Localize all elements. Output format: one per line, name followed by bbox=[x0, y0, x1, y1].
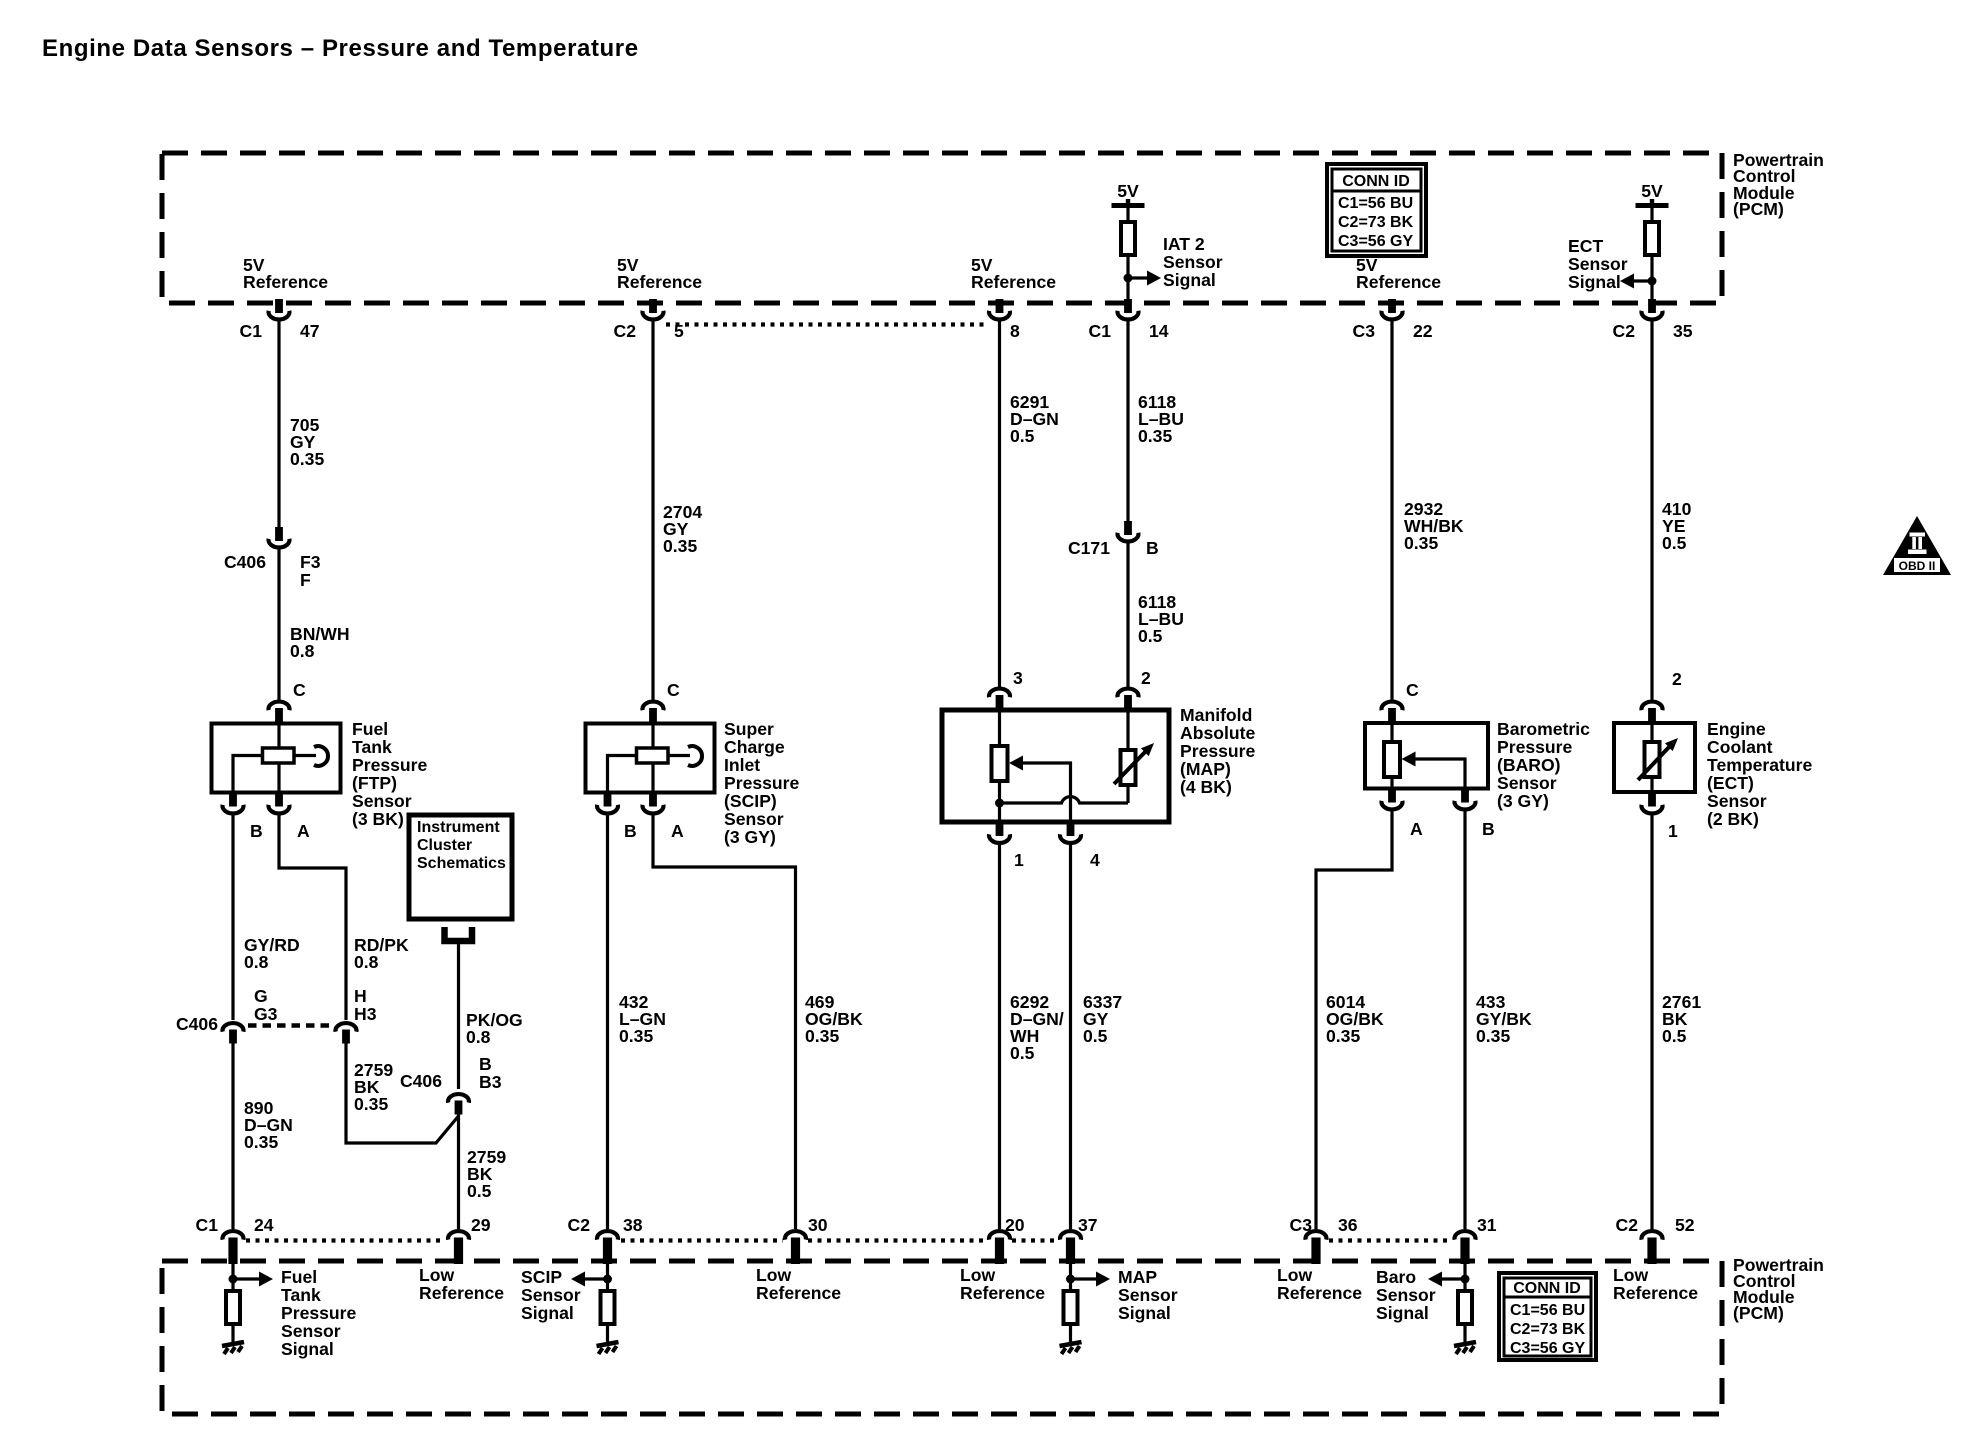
svg-text:29: 29 bbox=[471, 1215, 491, 1235]
svg-text:Instrument: Instrument bbox=[417, 819, 500, 836]
label: MAP Sensor Signal bbox=[1118, 1267, 1178, 1323]
arrow: IAT 2 Sensor Signal bbox=[1147, 271, 1161, 286]
wire: ECT signal arrow lead bbox=[1634, 279, 1652, 282]
svg-text:C3=56 GY: C3=56 GY bbox=[1338, 233, 1413, 250]
svg-text:C3: C3 bbox=[1353, 321, 1376, 341]
svg-text:(SCIP): (SCIP) bbox=[724, 791, 777, 811]
component: SCIP transducer element bbox=[637, 748, 669, 763]
connector: ECT pin 1 bbox=[1642, 793, 1679, 842]
svg-text:Engine: Engine bbox=[1707, 719, 1766, 739]
svg-text:Signal: Signal bbox=[1118, 1303, 1171, 1323]
svg-text:Signal: Signal bbox=[1568, 272, 1621, 292]
wire: FTP resistor to ground bbox=[231, 1324, 234, 1343]
svg-text:Low: Low bbox=[1277, 1265, 1312, 1285]
label: Engine Coolant Temperature (ECT) Sensor (2 BK) bbox=[1707, 719, 1812, 829]
label: Low Reference (C2-52) bbox=[1613, 1265, 1698, 1303]
svg-text:Low: Low bbox=[419, 1265, 454, 1285]
svg-text:1: 1 bbox=[1668, 821, 1678, 841]
svg-text:1: 1 bbox=[1014, 850, 1024, 870]
arrow: MAP Sensor Signal bbox=[1096, 1272, 1110, 1287]
arrow: MAP wiper into potentiometer bbox=[1009, 756, 1023, 771]
svg-text:Pressure: Pressure bbox=[352, 755, 428, 775]
svg-text:0.35: 0.35 bbox=[663, 536, 697, 556]
svg-text:A: A bbox=[1410, 819, 1423, 839]
svg-text:A: A bbox=[671, 821, 684, 841]
connector: MAP pin 4 bbox=[1060, 822, 1100, 870]
svg-text:(2 BK): (2 BK) bbox=[1707, 809, 1759, 829]
value label: 2704 GY 0.35 bbox=[663, 502, 702, 556]
svg-text:C2: C2 bbox=[1613, 321, 1636, 341]
resistor: MAP input load in PCM bbox=[1064, 1291, 1078, 1324]
wire: FTP signal arrow lead bbox=[233, 1277, 259, 1280]
svg-text:Sensor: Sensor bbox=[1568, 254, 1628, 274]
wire: GY/RD 0.8 (FTP B to C406 G3) bbox=[231, 813, 234, 1020]
svg-text:Fuel: Fuel bbox=[281, 1267, 317, 1287]
label: Barometric Pressure (BARO) Sensor (3 GY) bbox=[1497, 719, 1590, 811]
connector C1 pin 47 (PCM top) bbox=[240, 299, 320, 341]
svg-text:Low: Low bbox=[960, 1265, 995, 1285]
resistor: SCIP input load in PCM bbox=[601, 1291, 615, 1324]
tie line: bottom connector dotted segment 30-20 bbox=[808, 1238, 984, 1242]
svg-text:OBD II: OBD II bbox=[1899, 559, 1936, 573]
svg-text:4: 4 bbox=[1090, 850, 1100, 870]
sensor: Fuel Tank Pressure (FTP) box bbox=[212, 724, 341, 793]
svg-text:Fuel: Fuel bbox=[352, 719, 388, 739]
svg-text:ECT: ECT bbox=[1568, 236, 1603, 256]
wire: RD/PK 0.8 (FTP A to C406 H3) bbox=[279, 813, 346, 1020]
wire: SCIP internal input lead bbox=[651, 723, 654, 749]
wire: ECT internal lower lead bbox=[1650, 777, 1653, 792]
svg-text:Reference: Reference bbox=[243, 272, 328, 292]
svg-text:C406: C406 bbox=[176, 1014, 218, 1034]
wire: FTP internal output lead bbox=[277, 763, 280, 792]
connector C406 pin H/H3 (in-line) bbox=[336, 986, 377, 1044]
svg-text:Super: Super bbox=[724, 719, 774, 739]
symbol: thermistor diagonal arrow (ECT) bbox=[1638, 738, 1678, 780]
junction: Baro signal node bbox=[1461, 1275, 1470, 1284]
svg-text:38: 38 bbox=[623, 1215, 643, 1235]
value label: 432 L-GN 0.35 bbox=[619, 992, 666, 1046]
wire: MAP internal low lead with junction bbox=[998, 781, 1001, 822]
svg-text:Cluster: Cluster bbox=[417, 837, 472, 854]
label: Baro Sensor Signal bbox=[1376, 1267, 1436, 1323]
connector C2 pin 38 (PCM bottom) bbox=[568, 1215, 643, 1264]
arrow: ECT Sensor Signal bbox=[1620, 274, 1634, 289]
svg-text:5V: 5V bbox=[1117, 181, 1139, 201]
connector: BARO pin C bbox=[1382, 680, 1420, 724]
label: Fuel Tank Pressure (FTP) Sensor (3 BK) bbox=[352, 719, 428, 829]
svg-text:C: C bbox=[293, 680, 306, 700]
svg-text:0.35: 0.35 bbox=[1404, 533, 1438, 553]
svg-text:0.5: 0.5 bbox=[1138, 626, 1163, 646]
svg-text:Sensor: Sensor bbox=[724, 809, 784, 829]
svg-text:37: 37 bbox=[1078, 1215, 1098, 1235]
svg-text:0.5: 0.5 bbox=[467, 1181, 492, 1201]
wire: circuit 469 OG/BK 0.35 (SCIP A to pin 30) bbox=[653, 813, 796, 1229]
svg-text:0.35: 0.35 bbox=[354, 1094, 388, 1114]
svg-text:C3: C3 bbox=[1290, 1215, 1313, 1235]
svg-text:0.5: 0.5 bbox=[1083, 1026, 1108, 1046]
label: Manifold Absolute Pressure (MAP) (4 BK) bbox=[1180, 705, 1256, 797]
symbol: thermistor diagonal arrow (MAP) bbox=[1114, 743, 1154, 784]
wire: BARO internal output lead bbox=[1390, 777, 1393, 788]
svg-text:24: 24 bbox=[254, 1215, 274, 1235]
svg-text:C2: C2 bbox=[568, 1215, 591, 1235]
svg-text:(3 BK): (3 BK) bbox=[352, 809, 404, 829]
svg-text:Engine Data Sensors – Pressure: Engine Data Sensors – Pressure and Tempe… bbox=[42, 35, 639, 62]
ground: FTP internal ground bbox=[222, 1342, 244, 1354]
svg-text:36: 36 bbox=[1338, 1215, 1358, 1235]
OBD II symbol bbox=[1883, 516, 1951, 575]
svg-text:Reference: Reference bbox=[1613, 1283, 1698, 1303]
svg-text:A: A bbox=[297, 821, 310, 841]
wire: FTP internal input lead bbox=[277, 723, 280, 749]
label: SCIP Sensor Signal bbox=[521, 1267, 581, 1323]
svg-text:0.8: 0.8 bbox=[354, 952, 379, 972]
connector pin 29 (PCM bottom) bbox=[448, 1215, 491, 1264]
tie line: bottom connector dotted segment 36-31 bbox=[1329, 1238, 1451, 1242]
svg-text:C: C bbox=[667, 680, 680, 700]
node: 5V Reference (C1-47) label bbox=[243, 255, 328, 292]
wire: Baro resistor to ground bbox=[1463, 1324, 1466, 1343]
value label: 410 YE 0.5 bbox=[1662, 499, 1692, 553]
svg-text:Sensor: Sensor bbox=[521, 1285, 581, 1305]
value label: 6292 D-GN/WH 0.5 bbox=[1010, 992, 1064, 1063]
svg-text:H3: H3 bbox=[354, 1004, 377, 1024]
svg-text:C: C bbox=[1406, 680, 1419, 700]
svg-text:30: 30 bbox=[808, 1215, 828, 1235]
component: MAP IAT thermistor element bbox=[1121, 750, 1136, 785]
svg-text:Sensor: Sensor bbox=[1707, 791, 1767, 811]
connector: BARO pin B bbox=[1455, 789, 1495, 840]
resistor: IAT2 pull-up inside PCM bbox=[1121, 222, 1135, 255]
wire: MAP internal 5V lead bbox=[998, 710, 1001, 747]
label: Low Reference (pin 30) bbox=[756, 1265, 841, 1303]
svg-text:0.35: 0.35 bbox=[244, 1132, 278, 1152]
label: IAT 2 Sensor Signal bbox=[1163, 234, 1223, 290]
wire: circuit 2759 BK 0.35 (C406 H3 splice to B3 wire) bbox=[346, 1043, 459, 1143]
value label: 2759 BK 0.5 bbox=[467, 1147, 506, 1201]
svg-text:Sensor: Sensor bbox=[1163, 252, 1223, 272]
node: 5V Reference (pin 8) label bbox=[971, 255, 1056, 292]
arrow: Baro Sensor Signal bbox=[1428, 1272, 1442, 1287]
svg-text:CONN ID: CONN ID bbox=[1513, 1280, 1581, 1297]
connector: FTP pin B bbox=[223, 793, 263, 842]
connector C3 pin 36 (PCM bottom) bbox=[1290, 1215, 1358, 1264]
svg-text:22: 22 bbox=[1413, 321, 1433, 341]
svg-text:B: B bbox=[479, 1054, 492, 1074]
svg-text:14: 14 bbox=[1149, 321, 1169, 341]
wire: circuit 6118 L-BU 0.35 (C1-14 to C171 B) bbox=[1126, 319, 1129, 521]
wire: 5V bar to resistor (IAT2) bbox=[1126, 208, 1129, 222]
svg-text:Tank: Tank bbox=[352, 737, 392, 757]
svg-text:Pressure: Pressure bbox=[281, 1303, 357, 1323]
svg-text:Coolant: Coolant bbox=[1707, 737, 1773, 757]
svg-text:Sensor: Sensor bbox=[281, 1321, 341, 1341]
svg-text:C2: C2 bbox=[1616, 1215, 1639, 1235]
label: Super Charge Inlet Pressure (SCIP) Sensor (3 GY) bbox=[724, 719, 800, 847]
wire: resistor to PCM border (ECT) bbox=[1650, 255, 1653, 301]
wire: Baro signal arrow lead bbox=[1442, 1277, 1465, 1280]
svg-text:2: 2 bbox=[1672, 669, 1682, 689]
component: BARO potentiometer element bbox=[1384, 742, 1400, 777]
svg-text:0.35: 0.35 bbox=[1326, 1026, 1360, 1046]
svg-text:Signal: Signal bbox=[1163, 270, 1216, 290]
svg-text:0.5: 0.5 bbox=[1662, 1026, 1687, 1046]
connector: MAP pin 1 bbox=[989, 822, 1024, 870]
wire: circuit 6292 D-GN/WH 0.5 (MAP 1 to pin 20) bbox=[998, 842, 1001, 1229]
svg-text:Reference: Reference bbox=[617, 272, 702, 292]
sensor: Super Charge Inlet Pressure (SCIP) box bbox=[586, 724, 715, 793]
connector C1 pin 14 (PCM top) bbox=[1089, 299, 1169, 341]
junction: SCIP signal node bbox=[603, 1275, 612, 1284]
connector: FTP pin A bbox=[269, 793, 311, 842]
connector: ECT pin 2 bbox=[1642, 669, 1683, 724]
arrow: Fuel Tank Pressure Sensor Signal bbox=[259, 1272, 273, 1287]
svg-text:Pressure: Pressure bbox=[1180, 741, 1256, 761]
svg-text:0.35: 0.35 bbox=[619, 1026, 653, 1046]
svg-text:0.35: 0.35 bbox=[1138, 426, 1172, 446]
svg-text:(ECT): (ECT) bbox=[1707, 773, 1754, 793]
label: Fuel Tank Pressure Sensor Signal bbox=[281, 1267, 357, 1359]
connector: FTP pin C bbox=[269, 680, 307, 724]
svg-text:0.35: 0.35 bbox=[290, 449, 324, 469]
svg-text:Reference: Reference bbox=[971, 272, 1056, 292]
resistor: Baro input load in PCM bbox=[1458, 1291, 1472, 1324]
value label: 469 OG/BK 0.35 bbox=[805, 992, 863, 1046]
connector pin 8 (PCM top) bbox=[989, 299, 1020, 341]
svg-text:5V: 5V bbox=[1641, 181, 1663, 201]
connector pin 31 (PCM bottom) bbox=[1455, 1215, 1497, 1264]
wire: FTP transducer to port symbol bbox=[294, 754, 316, 757]
svg-text:B: B bbox=[250, 821, 263, 841]
svg-text:C171: C171 bbox=[1068, 538, 1110, 558]
node: 5V Reference (C2-5) label bbox=[617, 255, 702, 292]
value label: 6337 GY 0.5 bbox=[1083, 992, 1122, 1046]
wire: circuit 2932 WH/BK 0.35 (C3-22 to BARO pin C) bbox=[1390, 319, 1393, 700]
node: 5V Reference (C3-22) label bbox=[1356, 255, 1441, 292]
svg-text:0.8: 0.8 bbox=[466, 1027, 491, 1047]
wire: ECT internal upper lead bbox=[1650, 723, 1653, 743]
resistor: FTP input load in PCM bbox=[226, 1291, 240, 1324]
svg-text:52: 52 bbox=[1675, 1215, 1695, 1235]
svg-text:C3=56 GY: C3=56 GY bbox=[1510, 1340, 1585, 1357]
ground: Baro internal ground bbox=[1454, 1342, 1476, 1354]
svg-text:MAP: MAP bbox=[1118, 1267, 1157, 1287]
svg-text:(3 GY): (3 GY) bbox=[1497, 791, 1549, 811]
svg-text:G3: G3 bbox=[254, 1004, 278, 1024]
svg-text:Sensor: Sensor bbox=[1118, 1285, 1178, 1305]
box: Instrument Cluster Schematics bbox=[409, 815, 512, 919]
svg-text:0.8: 0.8 bbox=[290, 641, 315, 661]
wire: FTP signal lead inside PCM bbox=[231, 1264, 234, 1292]
value label: RD/PK 0.8 bbox=[354, 935, 409, 972]
sensor: Barometric Pressure (BARO) box bbox=[1365, 723, 1488, 789]
svg-text:Signal: Signal bbox=[281, 1339, 334, 1359]
connector C406 pin G/G3 (in-line) bbox=[176, 986, 278, 1044]
svg-text:F: F bbox=[300, 570, 311, 590]
wire: BARO internal 5V lead bbox=[1390, 723, 1393, 743]
tie line: bottom connector dotted segment 38-30 bbox=[621, 1238, 783, 1242]
wire: MAP internal low bus with hop bbox=[1000, 797, 1129, 803]
svg-text:Reference: Reference bbox=[756, 1283, 841, 1303]
value label: 890 D-GN 0.35 bbox=[244, 1098, 293, 1152]
connector: SCIP pin C bbox=[643, 680, 681, 724]
wire: 5V bar to resistor (ECT) bbox=[1650, 208, 1653, 222]
svg-text:Signal: Signal bbox=[1376, 1303, 1429, 1323]
wire: circuit 6014 OG/BK 0.35 (BARO A to C3-36) bbox=[1316, 809, 1392, 1229]
connector: MAP pin 3 bbox=[989, 668, 1023, 711]
wire: SCIP transducer to port symbol bbox=[668, 754, 690, 757]
svg-text:C406: C406 bbox=[400, 1071, 442, 1091]
wire: SCIP resistor to ground bbox=[606, 1324, 609, 1343]
svg-text:Schematics: Schematics bbox=[417, 855, 506, 872]
wire: circuit 2761 BK 0.5 (ECT 1 to C2-52) bbox=[1650, 813, 1653, 1229]
svg-text:Low: Low bbox=[756, 1265, 791, 1285]
connector: MAP pin 2 bbox=[1118, 668, 1152, 711]
connector pin 37 (PCM bottom) bbox=[1060, 1215, 1098, 1264]
svg-text:B: B bbox=[1146, 538, 1159, 558]
component: ECT thermistor element bbox=[1645, 742, 1660, 777]
svg-text:C1=56 BU: C1=56 BU bbox=[1510, 1302, 1585, 1319]
label: Low Reference (C3-36) bbox=[1277, 1265, 1362, 1303]
svg-text:Temperature: Temperature bbox=[1707, 755, 1812, 775]
svg-text:3: 3 bbox=[1013, 668, 1023, 688]
wire: MAP resistor to ground bbox=[1069, 1324, 1072, 1343]
tie line: C2 connector pins 5-8 (dotted) bbox=[666, 322, 987, 326]
svg-text:(PCM): (PCM) bbox=[1733, 199, 1784, 219]
svg-text:0.8: 0.8 bbox=[244, 952, 269, 972]
svg-text:C1=56 BU: C1=56 BU bbox=[1338, 195, 1413, 212]
symbol: FTP pressure port crescent bbox=[314, 746, 328, 766]
arrow: BARO wiper into potentiometer bbox=[1402, 752, 1416, 767]
svg-text:Charge: Charge bbox=[724, 737, 785, 757]
wire: circuit 432 L-GN 0.35 (SCIP B to C2-38) bbox=[606, 813, 609, 1229]
connector C171 pin B (in-line) bbox=[1068, 521, 1159, 558]
connector: SCIP pin A bbox=[643, 793, 685, 842]
connector pin 20 (PCM bottom) bbox=[989, 1215, 1025, 1264]
wire: circuit 433 GY/BK 0.35 (BARO B to pin 31) bbox=[1463, 809, 1466, 1229]
label: ECT Sensor Signal bbox=[1568, 236, 1628, 292]
power symbol: 5V supply for ECT pull-up bbox=[1636, 181, 1669, 208]
junction: IAT2 signal node bbox=[1124, 274, 1133, 283]
label: Powertrain Control Module (PCM) bottom bbox=[1733, 1255, 1824, 1323]
svg-text:(3 GY): (3 GY) bbox=[724, 827, 776, 847]
wire: circuit 410 YE 0.5 (C2-35 to ECT pin 2) bbox=[1650, 319, 1653, 700]
svg-text:C406: C406 bbox=[224, 552, 266, 572]
wire: BN/WH 0.8 (C406 F to FTP pin C) bbox=[277, 546, 280, 700]
wire: SCIP internal branch to pin B bbox=[608, 756, 638, 793]
svg-text:B: B bbox=[624, 821, 637, 841]
svg-text:(PCM): (PCM) bbox=[1733, 1303, 1784, 1323]
svg-text:Reference: Reference bbox=[1277, 1283, 1362, 1303]
svg-text:C2: C2 bbox=[614, 321, 637, 341]
wire: MAP signal arrow lead bbox=[1071, 1277, 1097, 1280]
wire: IAT2 signal arrow lead bbox=[1128, 276, 1147, 279]
svg-text:F3: F3 bbox=[300, 552, 321, 572]
connector C2 pin 52 (PCM bottom) bbox=[1616, 1215, 1695, 1264]
svg-text:2: 2 bbox=[1141, 668, 1151, 688]
svg-text:0.5: 0.5 bbox=[1010, 426, 1035, 446]
connector C2 pin 35 (PCM top) bbox=[1613, 299, 1693, 341]
svg-text:Absolute: Absolute bbox=[1180, 723, 1255, 743]
svg-text:Pressure: Pressure bbox=[1497, 737, 1573, 757]
wire: circuit 2759 BK 0.5 (C406 B3 to pin 29) bbox=[457, 1114, 460, 1229]
wire: circuit 890 D-GN 0.35 (C406 G3 to C1-24) bbox=[231, 1043, 234, 1229]
sensor: Engine Coolant Temperature (ECT) box bbox=[1614, 723, 1695, 792]
value label: 2759 BK 0.35 bbox=[354, 1060, 393, 1114]
svg-text:Sensor: Sensor bbox=[1497, 773, 1557, 793]
svg-text:IAT 2: IAT 2 bbox=[1163, 234, 1205, 254]
symbol: SCIP pressure port crescent bbox=[688, 746, 702, 766]
svg-text:Signal: Signal bbox=[521, 1303, 574, 1323]
svg-text:Tank: Tank bbox=[281, 1285, 321, 1305]
value label: PK/OG 0.8 bbox=[466, 1010, 523, 1047]
value label: 6014 OG/BK 0.35 bbox=[1326, 992, 1384, 1046]
svg-text:C1: C1 bbox=[196, 1215, 219, 1235]
svg-text:0.35: 0.35 bbox=[805, 1026, 839, 1046]
junction: ECT signal node bbox=[1648, 277, 1657, 286]
label: Powertrain Control Module (PCM) top bbox=[1733, 150, 1824, 219]
wire: Baro signal lead inside PCM bbox=[1463, 1264, 1466, 1292]
svg-text:B: B bbox=[1482, 819, 1495, 839]
value label: 433 GY/BK 0.35 bbox=[1476, 992, 1532, 1046]
wire: circuit 2704 GY 0.35 (C2-5 to SCIP pin C) bbox=[651, 319, 654, 700]
svg-text:47: 47 bbox=[300, 321, 320, 341]
junction: MAP low reference node bbox=[995, 799, 1004, 808]
wire: MAP thermistor upper lead bbox=[1126, 710, 1129, 751]
svg-text:Baro: Baro bbox=[1376, 1267, 1416, 1287]
label: Low Reference (pin 20) bbox=[960, 1265, 1045, 1303]
svg-text:Sensor: Sensor bbox=[1376, 1285, 1436, 1305]
wire: PK/OG 0.8 (cluster to C406 B3) bbox=[457, 944, 460, 1089]
power symbol: 5V supply for IAT 2 pull-up bbox=[1112, 181, 1145, 208]
symbol: instrument cluster connector bracket bbox=[445, 927, 473, 941]
svg-text:H: H bbox=[354, 986, 367, 1006]
svg-text:31: 31 bbox=[1477, 1215, 1497, 1235]
value label: GY/RD 0.8 bbox=[244, 935, 300, 972]
connector C1 pin 24 (PCM bottom) bbox=[196, 1215, 274, 1264]
connector: SCIP pin B bbox=[597, 793, 637, 842]
value label: 6118 L-BU 0.5 bbox=[1138, 592, 1184, 646]
resistor: ECT pull-up inside PCM bbox=[1645, 222, 1659, 255]
connector: BARO pin A bbox=[1382, 789, 1424, 840]
wire: MAP thermistor lower lead bbox=[1126, 785, 1129, 803]
component: MAP potentiometer element bbox=[992, 746, 1008, 781]
wire: circuit 6291 D-GN 0.5 (pin 8 to MAP pin 3) bbox=[998, 319, 1001, 687]
connector C406 pin F3/F (in-line) bbox=[224, 527, 321, 590]
arrow: SCIP Sensor Signal bbox=[571, 1272, 585, 1287]
svg-text:B3: B3 bbox=[479, 1072, 502, 1092]
wire: MAP wiper lead bbox=[1022, 763, 1071, 822]
connector C406 pin B/B3 (in-line) bbox=[400, 1054, 502, 1115]
junction: FTP signal node bbox=[229, 1275, 238, 1284]
tie line: C406 pins G3-H3 (dashed) bbox=[248, 1023, 333, 1028]
svg-text:C2=73 BK: C2=73 BK bbox=[1510, 1321, 1586, 1338]
label: Low Reference (pin 29) bbox=[419, 1265, 504, 1303]
wire: BARO wiper lead bbox=[1414, 759, 1465, 788]
svg-text:Manifold: Manifold bbox=[1180, 705, 1252, 725]
component: FTP transducer element bbox=[263, 748, 295, 763]
svg-text:35: 35 bbox=[1673, 321, 1693, 341]
svg-text:Low: Low bbox=[1613, 1265, 1648, 1285]
svg-text:8: 8 bbox=[1010, 321, 1020, 341]
sensor: Manifold Absolute Pressure (MAP) box bbox=[942, 710, 1169, 822]
svg-text:(FTP): (FTP) bbox=[352, 773, 397, 793]
value label: 2761 BK 0.5 bbox=[1662, 992, 1701, 1046]
svg-text:Reference: Reference bbox=[1356, 272, 1441, 292]
svg-text:C1: C1 bbox=[1089, 321, 1112, 341]
